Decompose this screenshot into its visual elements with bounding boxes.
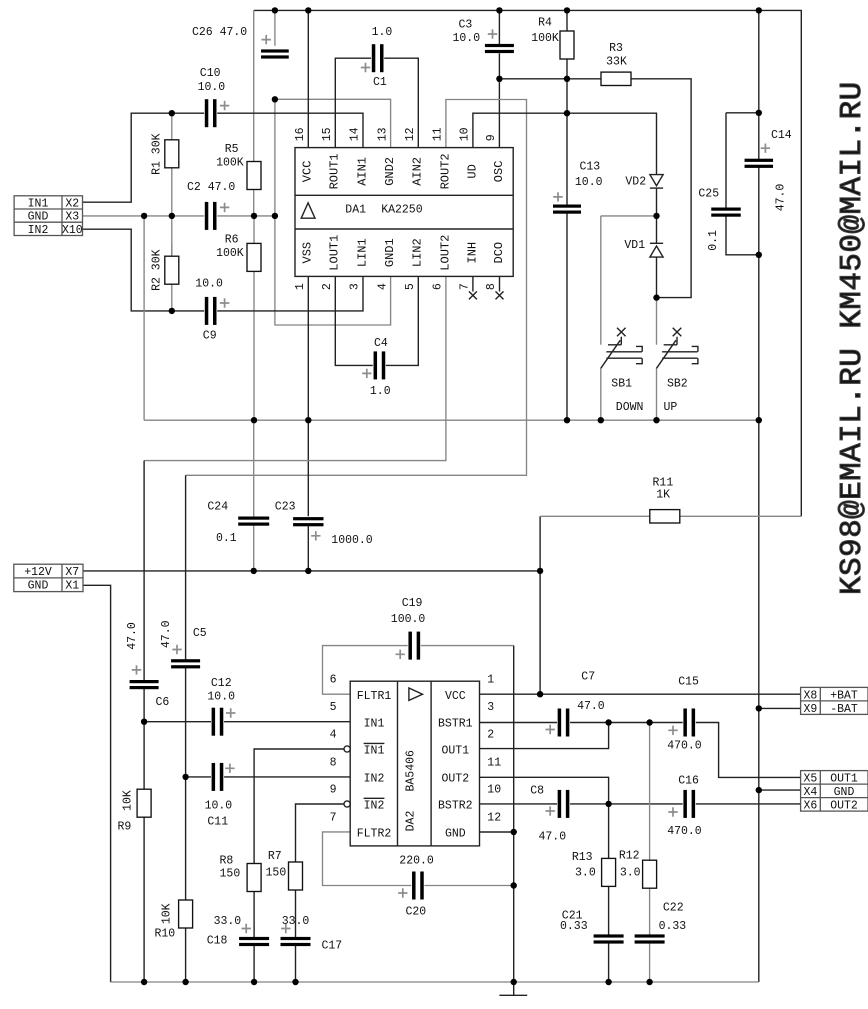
diode VD2 — [625, 175, 663, 189]
resistor R6 — [216, 234, 261, 272]
svg-text:2: 2 — [487, 728, 494, 741]
connector X8/X9 (+BAT, -BAT) — [801, 687, 868, 716]
wire C3-R4 junction wire y=78.8 — [499, 78, 601, 80]
svg-text:0.33: 0.33 — [560, 920, 588, 933]
svg-text:C4: C4 — [374, 337, 388, 350]
svg-text:GND: GND — [28, 211, 49, 224]
wire OUT2 wire — [480, 777, 609, 804]
junction LIN1 wire / R2 — [169, 308, 175, 314]
svg-text:4: 4 — [376, 283, 389, 290]
svg-text:C23: C23 — [275, 501, 296, 514]
svg-text:C25: C25 — [698, 188, 719, 201]
junction bottom rail / C22 — [646, 979, 652, 985]
capacitor C12 — [207, 677, 235, 736]
junction C3 / pin9 / R4 wire — [496, 76, 502, 82]
junction UD wire / C13 — [564, 110, 570, 116]
svg-text:150: 150 — [220, 868, 241, 881]
svg-text:OUT1: OUT1 — [830, 773, 858, 786]
wire VD1 bottom lead — [656, 257, 658, 298]
junction bottom rail / R10 — [182, 979, 188, 985]
svg-text:C17: C17 — [322, 940, 343, 953]
wire SB1 leads — [600, 216, 602, 420]
svg-text:14: 14 — [349, 127, 362, 141]
junction bottom rail / R9 — [141, 979, 147, 985]
svg-text:VSS: VSS — [301, 242, 315, 264]
svg-text:C20: C20 — [406, 906, 427, 919]
svg-text:AIN2: AIN2 — [411, 157, 425, 186]
capacitor C26 — [192, 26, 289, 58]
capacitor C7 — [546, 671, 605, 737]
wire R3 right lead down to VD1 bottom — [631, 79, 691, 298]
svg-text:12: 12 — [404, 127, 417, 141]
svg-text:FLTR1: FLTR1 — [357, 690, 392, 703]
wire C19 loop FLTR1 — [323, 646, 408, 695]
svg-text:BA5406: BA5406 — [404, 750, 417, 792]
wire OSC pin9 / C3 column — [498, 10, 500, 147]
DA2 inverted input bubble pin 9 — [344, 801, 350, 807]
svg-text:SB2: SB2 — [667, 378, 688, 391]
svg-text:GND: GND — [445, 828, 466, 841]
wire C21 bottom lead — [608, 943, 610, 982]
svg-text:6: 6 — [330, 674, 337, 687]
wire R11 leads — [540, 515, 801, 517]
junction C25 top / C14 column — [756, 110, 762, 116]
svg-text:10.0: 10.0 — [575, 176, 603, 189]
IC DA1 designator label — [345, 203, 422, 216]
wire DCO pin8 stub — [499, 276, 501, 291]
capacitor C8 — [530, 785, 569, 844]
svg-text:47.0: 47.0 — [539, 830, 567, 843]
svg-text:R13: R13 — [572, 851, 593, 864]
svg-text:LIN1: LIN1 — [355, 238, 369, 267]
svg-text:6: 6 — [432, 283, 445, 290]
junction C7 wire / R12 — [646, 719, 652, 725]
capacitor C6 — [126, 622, 170, 709]
wire SB2 leads — [656, 298, 658, 421]
svg-text:GND1: GND1 — [383, 238, 397, 267]
svg-text:X8: X8 — [803, 689, 817, 702]
svg-text:100K: 100K — [531, 32, 559, 45]
svg-text:SB1: SB1 — [611, 378, 632, 391]
svg-text:47.0: 47.0 — [577, 700, 605, 713]
resistor R5 — [216, 143, 261, 189]
capacitor C5 — [160, 620, 207, 668]
wire GND X3 column down to ground rail — [143, 216, 145, 420]
wire BSTR1 wire through C7 and C15 — [480, 723, 801, 778]
svg-text:5: 5 — [404, 283, 417, 290]
svg-text:10.0: 10.0 — [205, 800, 233, 813]
svg-text:R7: R7 — [268, 850, 282, 863]
junction -BAT tap — [756, 705, 762, 711]
svg-text:GND: GND — [834, 786, 855, 799]
diode VD1 — [624, 239, 663, 257]
wire UD pin10 wire — [473, 113, 657, 174]
wire BSTR2 wire through C8 and C16 to X6 — [480, 803, 801, 805]
wire C13 leads — [566, 113, 568, 420]
DA2 pin label IN1 (inverted) — [364, 743, 385, 757]
wire FLTR2 jog to C20 — [323, 832, 412, 886]
capacitor C2 — [187, 181, 235, 230]
svg-text:DOWN: DOWN — [616, 401, 644, 414]
capacitor C16 — [667, 774, 702, 837]
svg-text:16: 16 — [294, 127, 307, 141]
wire C5 column — [185, 475, 187, 777]
wire GND X1 down to bottom rail — [83, 585, 111, 982]
wire inverted IN2 wire to R7 column — [296, 804, 345, 862]
resistor R7 — [266, 850, 303, 890]
junction +12V / C24 — [251, 568, 257, 574]
svg-text:1: 1 — [487, 674, 494, 687]
svg-text:ROUT2: ROUT2 — [438, 153, 452, 189]
svg-text:X2: X2 — [65, 198, 79, 211]
wire OUT1 wire — [480, 723, 609, 749]
svg-text:C13: C13 — [580, 160, 601, 173]
wire R4 leads — [566, 10, 568, 78]
resistor R9 — [118, 789, 152, 833]
junction GND pin12 / ground column — [511, 829, 517, 835]
wire LOUT1 pin2 to C4 to LIN2 pin5 — [335, 276, 418, 365]
capacitor C9 — [195, 278, 229, 343]
svg-text:R10: R10 — [155, 928, 176, 941]
svg-text:+12V: +12V — [24, 566, 52, 579]
wire INH pin7 stub — [472, 276, 474, 291]
capacitor C4 — [362, 337, 391, 398]
push button SB2 — [657, 328, 698, 414]
svg-text:1.0: 1.0 — [372, 26, 393, 39]
svg-text:33K: 33K — [606, 56, 627, 69]
svg-text:3: 3 — [487, 701, 494, 714]
wire IN1/X2 to C10 to AIN1 pin14 — [83, 113, 364, 202]
junction bottom rail / C21 — [605, 979, 611, 985]
wire ground rail y=420 — [144, 419, 759, 421]
wire R2 leads — [171, 244, 173, 311]
svg-text:47.0: 47.0 — [775, 184, 788, 212]
wire C23 leads — [307, 420, 309, 571]
wire VSS pin1 to ground rail — [307, 276, 309, 420]
capacitor C18 — [207, 915, 269, 948]
svg-text:R2 30K: R2 30K — [151, 249, 164, 291]
svg-text:10: 10 — [487, 783, 501, 796]
svg-text:OUT1: OUT1 — [441, 745, 469, 758]
connector X7/X1 (+12V, GND) — [14, 564, 83, 592]
DA2 inverted input bubble pin 4 — [344, 746, 350, 752]
junction bottom rail / C18 — [251, 979, 257, 985]
wire C24 leads — [253, 420, 255, 571]
capacitor C23 — [275, 501, 373, 548]
svg-text:C8: C8 — [530, 785, 544, 798]
svg-text:IN2: IN2 — [28, 224, 49, 237]
junction ground rail / C13 — [564, 417, 570, 423]
wire R12 leads — [649, 723, 651, 935]
junction top rail / C3 — [496, 7, 502, 13]
svg-text:10.0: 10.0 — [198, 81, 226, 94]
resistor R8 — [219, 854, 261, 891]
svg-text:DCO: DCO — [492, 242, 506, 264]
no-connect x on pin 7 — [469, 291, 477, 299]
wire C19/GND column down to ground — [513, 646, 515, 982]
svg-text:DA2: DA2 — [404, 811, 417, 832]
junction GND wire / C26 column — [272, 213, 278, 219]
wire main right vertical to -BAT / GND / bottom rail — [758, 420, 760, 982]
wire R8/C18 column — [253, 892, 255, 983]
svg-text:R5: R5 — [225, 143, 239, 156]
svg-text:C15: C15 — [678, 676, 699, 689]
svg-text:R4: R4 — [538, 16, 552, 29]
junction top rail / R4 — [564, 7, 570, 13]
svg-text:LOUT1: LOUT1 — [328, 235, 342, 271]
wire X9 -BAT stub — [759, 707, 801, 709]
svg-text:11: 11 — [432, 127, 445, 141]
resistor R10 — [155, 900, 193, 941]
svg-text:3: 3 — [349, 283, 362, 290]
svg-text:R8: R8 — [219, 854, 233, 867]
wire C26 column with GND2 jog — [275, 10, 391, 216]
svg-text:1: 1 — [294, 283, 307, 290]
svg-text:GND: GND — [28, 580, 49, 593]
svg-text:10.0: 10.0 — [195, 278, 223, 291]
junction AIN1 wire / R1 — [169, 110, 175, 116]
junction C8 / OUT2 / R13 — [605, 801, 611, 807]
svg-text:VCC: VCC — [301, 161, 315, 183]
junction C6 / C12 / R9 — [141, 719, 147, 725]
svg-text:47.0: 47.0 — [126, 622, 139, 650]
junction GND wire / X3 column — [141, 213, 147, 219]
wire X4 GND stub — [759, 789, 801, 791]
svg-text:IN1: IN1 — [364, 745, 385, 758]
resistor R12 — [619, 850, 657, 889]
wire R13 leads — [608, 804, 610, 935]
junction ground rail / right column — [756, 417, 762, 423]
svg-text:C7: C7 — [581, 671, 595, 684]
junction VD1 / SB2 / R3 — [653, 294, 659, 300]
connector X2/X3/X10 (IN1, GND, IN2) — [14, 196, 83, 237]
svg-text:X1: X1 — [65, 580, 79, 593]
svg-text:R6: R6 — [225, 234, 239, 247]
capacitor C1 — [361, 26, 393, 89]
junction +12V / R11 column — [537, 568, 543, 574]
wire LOUT2 pin6 jog to C6 column — [144, 276, 446, 460]
svg-text:C3: C3 — [459, 19, 473, 32]
resistor R2 — [151, 249, 179, 291]
junction C26 bottom / GND2 — [272, 96, 278, 102]
svg-text:X10: X10 — [62, 224, 83, 237]
wire R1 leads — [171, 113, 173, 216]
junction top rail / C14 — [756, 7, 762, 13]
svg-text:47.0: 47.0 — [160, 620, 173, 648]
svg-text:C18: C18 — [207, 935, 228, 948]
capacitor C20 — [398, 855, 434, 919]
svg-text:KS98@EMAIL.RU KM450@MAIL.RU: KS98@EMAIL.RU KM450@MAIL.RU — [835, 81, 868, 595]
svg-text:33.0: 33.0 — [282, 915, 310, 928]
svg-text:VD1: VD1 — [624, 239, 645, 252]
svg-text:ROUT1: ROUT1 — [328, 153, 342, 189]
junction C25 bottom / C14 bottom — [756, 252, 762, 258]
svg-text:OSC: OSC — [492, 161, 506, 183]
resistor R3 — [601, 42, 631, 86]
svg-text:C6: C6 — [156, 696, 170, 709]
svg-text:-BAT: -BAT — [830, 703, 858, 716]
junction C5 / C11 / R10 — [182, 774, 188, 780]
wire R4/R3 junction down to UD wire — [566, 79, 568, 113]
svg-text:OUT2: OUT2 — [830, 800, 858, 813]
svg-text:4: 4 — [330, 728, 337, 741]
svg-text:100K: 100K — [216, 157, 244, 170]
ground symbol — [499, 982, 527, 995]
svg-text:+BAT: +BAT — [830, 689, 858, 702]
svg-text:100K: 100K — [216, 247, 244, 260]
junction bottom rail / ground column — [511, 979, 517, 985]
svg-text:C12: C12 — [211, 677, 232, 690]
resistor R11 — [650, 477, 680, 523]
wire GND1 jog from GND wire to pin 4 — [275, 216, 391, 325]
svg-text:100.0: 100.0 — [391, 613, 426, 626]
wire VD2 to VD1 link — [656, 188, 658, 243]
wire C19 right to GND column — [421, 645, 514, 647]
wire R5 bottom to GND wire — [253, 190, 255, 216]
junction ground rail / SB1 — [598, 417, 604, 423]
wire ROUT2 jog around DA1 down to C5 column — [186, 100, 527, 476]
junction ground rail / VSS — [305, 417, 311, 423]
svg-text:IN1: IN1 — [364, 717, 385, 730]
capacitor C19 — [391, 597, 426, 660]
junction R4 bottom / R3 — [564, 76, 570, 82]
svg-text:C16: C16 — [678, 774, 699, 787]
capacitor C3 — [453, 19, 514, 54]
junction top rail / C26 — [272, 7, 278, 13]
junction GND wire / R1 R2 — [169, 213, 175, 219]
svg-text:13: 13 — [376, 127, 389, 141]
wire R7/C17 column — [295, 890, 297, 982]
junction bottom rail / C17 — [292, 979, 298, 985]
svg-text:KA2250: KA2250 — [381, 203, 423, 216]
junction X4 GND tap — [756, 787, 762, 793]
capacitor C13 — [553, 160, 603, 213]
wire IN2/X10 down to C9 to LIN1 pin3 — [83, 229, 364, 311]
svg-text:2: 2 — [321, 283, 334, 290]
svg-text:X7: X7 — [65, 566, 79, 579]
IC DA2 designator label — [404, 750, 417, 831]
svg-text:10.0: 10.0 — [453, 32, 481, 45]
svg-text:IN2: IN2 — [364, 773, 385, 786]
svg-text:AIN1: AIN1 — [355, 157, 369, 186]
svg-text:C26 47.0: C26 47.0 — [192, 26, 247, 39]
capacitor C25 — [698, 188, 740, 251]
svg-text:FLTR2: FLTR2 — [357, 828, 392, 841]
resistor R13 — [572, 851, 616, 886]
wire GND pin12 wire — [480, 831, 514, 833]
capacitor C11 — [205, 763, 235, 829]
svg-text:0.1: 0.1 — [216, 532, 237, 545]
svg-text:IN2: IN2 — [364, 800, 385, 813]
svg-text:1000.0: 1000.0 — [331, 534, 373, 547]
svg-text:C24: C24 — [207, 501, 228, 514]
svg-text:33.0: 33.0 — [214, 915, 242, 928]
capacitor C22 — [635, 902, 687, 944]
wire +12V top rail to outer right loop down to R11 — [254, 10, 802, 516]
svg-text:5: 5 — [330, 701, 337, 714]
svg-text:10: 10 — [459, 127, 472, 141]
svg-text:8: 8 — [330, 756, 337, 769]
wire VCC pin16 column — [307, 10, 309, 147]
junction ground rail / R6 — [251, 417, 257, 423]
svg-text:R3: R3 — [609, 42, 623, 55]
svg-text:C11: C11 — [207, 815, 228, 828]
wire SB1 top wire from VD junction — [601, 215, 657, 217]
wire R5/R6/C24 column upper (rail to R5) — [253, 10, 255, 161]
svg-text:10.0: 10.0 — [207, 690, 235, 703]
svg-text:150: 150 — [266, 867, 287, 880]
capacitor C10 — [198, 67, 230, 127]
resistor R4 — [531, 16, 574, 59]
svg-text:9: 9 — [485, 134, 498, 141]
svg-text:C5: C5 — [193, 627, 207, 640]
svg-text:10K: 10K — [160, 903, 173, 924]
svg-text:UP: UP — [664, 401, 678, 414]
wire C25 leads — [726, 113, 759, 255]
wire R2 top stub — [171, 216, 173, 256]
svg-text:10K: 10K — [122, 790, 135, 811]
svg-text:C9: C9 — [203, 330, 217, 343]
capacitor C17 — [281, 915, 343, 953]
svg-text:11: 11 — [487, 756, 501, 769]
svg-text:C22: C22 — [663, 902, 684, 915]
wire R11 left column +12V to VCC — [539, 516, 541, 694]
svg-text:470.0: 470.0 — [667, 740, 702, 753]
push button SB1 — [601, 328, 644, 414]
DA2 pin label IN2 (inverted) — [364, 798, 385, 812]
wire R9 bottom lead — [143, 818, 145, 983]
wire C6 column — [143, 461, 145, 790]
svg-text:220.0: 220.0 — [399, 855, 434, 868]
wire C22 bottom lead — [649, 943, 651, 982]
svg-text:OUT2: OUT2 — [441, 773, 469, 786]
svg-text:8: 8 — [485, 283, 498, 290]
capacitor C24 — [207, 501, 269, 545]
wire R6 leads to ground rail — [253, 216, 255, 420]
svg-text:IN1: IN1 — [28, 198, 49, 211]
svg-text:BSTR1: BSTR1 — [438, 717, 473, 730]
op-amp U? : IC DA1 KA2250 body — [295, 148, 513, 277]
junction top rail / VCC16 — [305, 7, 311, 13]
svg-text:1K: 1K — [656, 489, 670, 502]
wire +12V wire from X7 — [83, 570, 540, 572]
capacitor C14 — [745, 129, 792, 211]
svg-text:LOUT2: LOUT2 — [438, 235, 452, 271]
svg-text:470.0: 470.0 — [667, 825, 702, 838]
wire inverted IN1 wire to R8 column — [254, 749, 344, 864]
wire IN2 wire through C11 — [186, 776, 351, 778]
svg-text:C10: C10 — [200, 67, 221, 80]
svg-text:1.0: 1.0 — [370, 385, 391, 398]
wire ROUT1 to C1 to AIN2 — [335, 58, 418, 147]
svg-text:3.0: 3.0 — [575, 867, 596, 880]
svg-text:GND2: GND2 — [383, 157, 397, 186]
svg-text:C19: C19 — [402, 597, 423, 610]
svg-text:INH: INH — [465, 242, 479, 264]
wire R10 leads — [185, 777, 187, 982]
svg-text:C1: C1 — [373, 76, 387, 89]
wire GND/X3 wire through C2 — [83, 215, 275, 217]
svg-text:7: 7 — [330, 811, 337, 824]
wire C20 right lead — [424, 885, 513, 887]
svg-text:X9: X9 — [803, 703, 817, 716]
svg-text:9: 9 — [330, 783, 337, 796]
svg-text:R9: R9 — [118, 821, 132, 834]
junction VD2/VD1 junction — [653, 213, 659, 219]
resistor R1 — [151, 133, 179, 175]
svg-text:DA1: DA1 — [345, 203, 366, 216]
svg-text:VD2: VD2 — [625, 175, 646, 188]
